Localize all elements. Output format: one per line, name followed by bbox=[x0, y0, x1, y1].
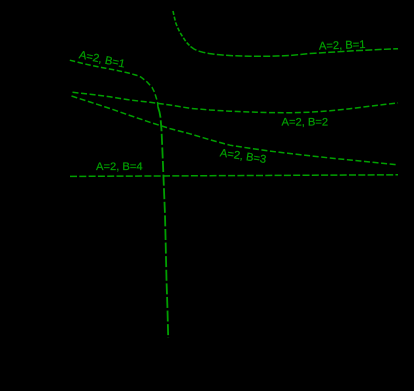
curve A=2,B=1 left branch upper arc bbox=[70, 60, 158, 107]
svg-text:A=2, B=4: A=2, B=4 bbox=[96, 161, 143, 173]
svg-text:A=2, B=2: A=2, B=2 bbox=[282, 117, 329, 129]
curve A=2,B=3 bbox=[72, 96, 399, 165]
curve A=2,B=1 left branch steep plunge bbox=[158, 107, 168, 338]
curve A=2,B=2 bbox=[73, 92, 399, 113]
svg-text:A=2, B=1: A=2, B=1 bbox=[319, 39, 366, 53]
curve A=2,B=4 horizontal line bbox=[70, 175, 398, 177]
curve A=2,B=1 right branch flat tail bbox=[191, 47, 399, 57]
curve A=2,B=1 right branch steep drop bbox=[173, 11, 191, 47]
